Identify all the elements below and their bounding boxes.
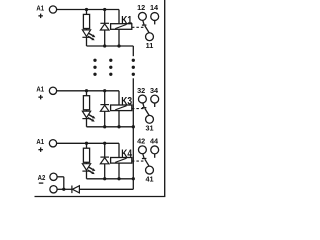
frame right border	[164, 0, 166, 197]
coil slash	[115, 106, 126, 110]
junction A2 wires	[62, 188, 65, 191]
LED cathode bar	[82, 170, 90, 172]
LED arrow 2	[88, 36, 92, 38]
LED arrow 1	[89, 167, 93, 169]
svg-text:A1: A1	[36, 85, 44, 94]
wire LED to bus	[86, 37, 88, 46]
plus sign	[38, 149, 43, 151]
polarity diode	[72, 186, 79, 193]
plus sign	[38, 96, 43, 98]
LED arrow 2	[88, 170, 92, 172]
junction coil-bus	[117, 44, 120, 47]
fixed contact tick	[142, 107, 147, 109]
resistor (K4)	[83, 148, 89, 162]
wire to resistor (K4)	[86, 143, 88, 148]
wire diode to return line	[79, 188, 133, 190]
svg-text:11: 11	[146, 41, 154, 50]
wire to freewheeling diode (K1)	[104, 10, 106, 24]
svg-text:12: 12	[137, 3, 145, 12]
bus wire (K4)	[87, 178, 134, 180]
junction K3 bus to return wire	[132, 125, 135, 128]
stub from 32	[143, 103, 144, 107]
wire to resistor (K1)	[86, 10, 88, 15]
relay coil K3	[111, 105, 132, 111]
junction diode branch	[103, 8, 106, 11]
terminal 14 circle	[151, 13, 159, 21]
wire diode to bus	[104, 30, 106, 46]
continuation dots (more channels)	[93, 59, 96, 62]
actuator dashed link K3	[132, 108, 144, 110]
junction diode-bus	[103, 44, 106, 47]
svg-text:32: 32	[137, 86, 145, 95]
junction resistor branch	[85, 89, 88, 92]
relay coil K1	[111, 24, 132, 30]
return wire main segment	[132, 78, 134, 189]
LED (K3)	[82, 111, 90, 118]
wire to freewheeling diode (K4)	[104, 143, 106, 157]
wire resistor to LED	[86, 110, 88, 111]
freewheeling diode (K3)	[100, 105, 109, 111]
wire LED to bus	[86, 171, 88, 179]
wire A1 horizontal	[57, 9, 119, 11]
resistor (K1)	[83, 14, 89, 28]
plus sign	[38, 15, 43, 17]
fixed contact tick	[142, 24, 147, 26]
terminal 44 circle	[151, 146, 159, 154]
actuator dashed link K1	[132, 26, 144, 28]
wire LED to bus	[86, 119, 88, 127]
terminal 11 circle	[146, 33, 154, 41]
minus sign	[39, 182, 44, 184]
svg-text:42: 42	[137, 137, 145, 146]
wire to coil (K4)	[118, 143, 120, 157]
svg-text:A1: A1	[36, 3, 44, 12]
svg-text:34: 34	[150, 86, 159, 95]
terminal 34 circle	[151, 95, 159, 103]
svg-text:K1: K1	[121, 14, 132, 26]
svg-text:44: 44	[150, 137, 159, 146]
LED cathode bar	[82, 36, 90, 38]
LED cathode bar	[82, 118, 90, 120]
wire coil to bus	[118, 111, 120, 127]
terminal A1 circle (K1)	[49, 6, 56, 13]
terminal A2 lower circle	[50, 186, 57, 193]
terminal 42 circle	[138, 146, 146, 154]
LED arrow 1	[89, 33, 93, 35]
junction coil-bus	[117, 177, 120, 180]
switch arm (K4)	[145, 159, 149, 166]
wire A1 horizontal	[57, 142, 119, 144]
stub from 34	[154, 103, 156, 107]
junction diode branch	[103, 89, 106, 92]
LED (K4)	[82, 164, 90, 171]
freewheeling diode (K1)	[100, 24, 109, 30]
wire A2 lower	[57, 188, 72, 190]
actuator dashed link K4	[132, 160, 144, 162]
LED arrow 1	[89, 115, 93, 117]
terminal 31 circle	[146, 115, 154, 123]
wire A2 upper	[57, 176, 64, 178]
wire resistor to LED	[86, 29, 88, 30]
LED (K1)	[82, 30, 90, 37]
svg-text:A2: A2	[38, 173, 46, 182]
switch arm (K1)	[145, 26, 149, 33]
terminal A2 upper circle	[50, 173, 57, 180]
junction diode-bus	[103, 177, 106, 180]
bus wire (K1)	[87, 45, 134, 47]
svg-text:K4: K4	[121, 148, 132, 160]
diode cathode bar	[100, 104, 109, 106]
svg-text:31: 31	[145, 124, 153, 133]
terminal A1 circle (K4)	[49, 140, 56, 147]
freewheeling diode (K4)	[100, 158, 109, 164]
wire coil to bus	[118, 163, 120, 179]
return wire upper segment	[132, 46, 134, 56]
coil slash	[115, 24, 126, 28]
svg-text:41: 41	[145, 174, 153, 183]
wire to coil (K3)	[118, 91, 120, 105]
wire to coil (K1)	[118, 10, 120, 24]
diode cathode bar	[100, 156, 109, 158]
fixed contact tick	[142, 158, 147, 160]
svg-text:K3: K3	[121, 96, 132, 108]
stub from 12	[143, 20, 144, 24]
terminal A1 circle (K3)	[49, 87, 56, 94]
stub from 42	[143, 154, 144, 158]
wire diode to bus	[104, 164, 106, 179]
LED arrow 2	[88, 118, 92, 120]
wire resistor to LED	[86, 162, 88, 163]
relay coil K4	[111, 158, 132, 164]
resistor (K3)	[83, 96, 89, 110]
stub from 14	[154, 20, 156, 24]
junction coil-bus	[117, 125, 120, 128]
wire diode to bus	[104, 111, 106, 127]
wire to freewheeling diode (K3)	[104, 91, 106, 105]
svg-text:14: 14	[150, 3, 159, 12]
stub from 44	[154, 154, 156, 158]
coil slash	[115, 158, 126, 162]
junction resistor branch	[85, 8, 88, 11]
junction diode-bus	[103, 125, 106, 128]
svg-text:A1: A1	[36, 137, 44, 146]
diode cathode bar	[100, 22, 109, 24]
terminal 12 circle	[138, 12, 146, 20]
polarity diode cathode bar	[71, 186, 73, 194]
junction resistor branch	[85, 142, 88, 145]
switch arm (K3)	[145, 109, 149, 116]
terminal 41 circle	[146, 166, 154, 174]
wire A2 vertical	[63, 177, 65, 190]
wire coil to bus	[118, 29, 120, 46]
junction diode branch	[103, 142, 106, 145]
terminal 32 circle	[138, 95, 146, 103]
wire to resistor (K3)	[86, 91, 88, 96]
frame bottom border	[35, 196, 166, 198]
bus wire (K3)	[87, 126, 134, 128]
wire A1 horizontal	[57, 90, 119, 92]
junction K4 bus to return wire	[132, 177, 135, 180]
